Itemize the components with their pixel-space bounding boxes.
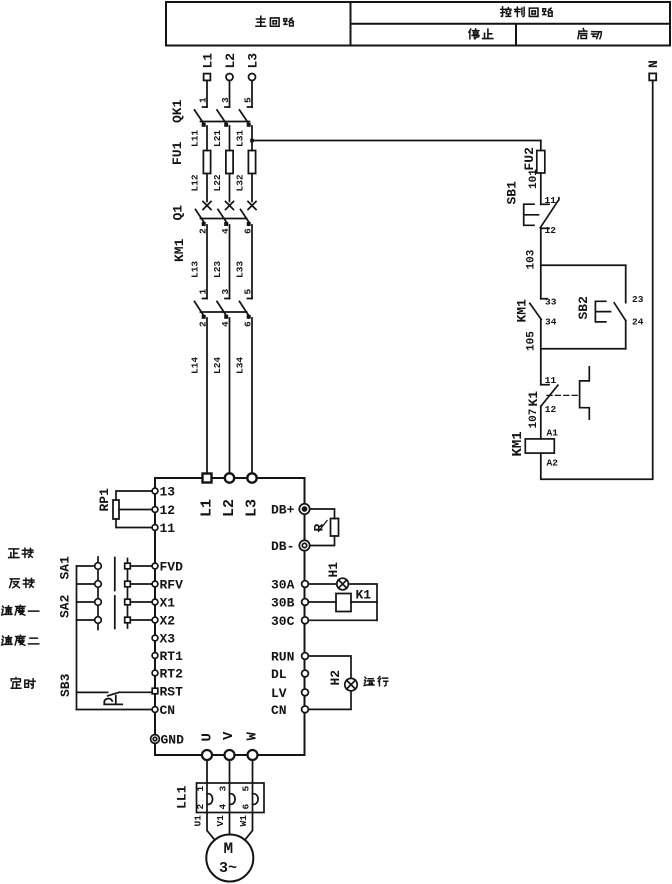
svg-text:FU1: FU1 — [170, 141, 185, 165]
svg-text:L2: L2 — [221, 499, 238, 517]
node L1 supply terminal — [204, 74, 211, 81]
svg-text:FVD: FVD — [160, 560, 184, 575]
svg-text:W1: W1 — [238, 815, 249, 827]
VFD inverter box U1 — [155, 478, 305, 755]
svg-text:SA2: SA2 — [58, 594, 73, 618]
svg-text:SA1: SA1 — [58, 556, 73, 580]
wire L31 — [251, 126, 253, 151]
svg-text:23: 23 — [632, 294, 644, 305]
KM1 aux blade — [530, 303, 542, 319]
svg-text:CN: CN — [271, 703, 287, 718]
node N terminal — [649, 73, 656, 80]
svg-text:11: 11 — [160, 521, 176, 536]
svg-text:RP1: RP1 — [97, 488, 112, 512]
K1 link to delay element — [547, 394, 579, 396]
svg-text:L31: L31 — [235, 130, 246, 147]
VFD terminal L3 — [247, 473, 256, 482]
svg-text:105: 105 — [526, 331, 538, 351]
svg-text:13: 13 — [160, 485, 176, 500]
wire 30B to K1 coil — [308, 601, 336, 603]
K1 delayed blade — [541, 385, 558, 406]
svg-text:3: 3 — [218, 786, 229, 792]
header label 启动 — [578, 29, 601, 39]
svg-text:L32: L32 — [235, 174, 246, 191]
svg-text:24: 24 — [632, 317, 644, 328]
VFD terminal GND — [151, 735, 160, 744]
KM1 pole 2 blade — [217, 302, 227, 317]
contact SA2 X2 — [95, 617, 102, 624]
svg-text:KM1: KM1 — [510, 431, 526, 456]
VFD terminal RT2 — [152, 670, 158, 676]
wire U to reactor — [206, 760, 208, 783]
QK1 pole 1 contact dot — [202, 123, 206, 127]
svg-text:1: 1 — [195, 786, 206, 792]
KM1 pole 3 terminal 6 — [247, 315, 251, 319]
QK1 pole 2 blade — [217, 110, 227, 124]
svg-text:GND: GND — [161, 733, 185, 748]
fuse FU2 — [537, 151, 545, 174]
QK1 pole 3 blade — [240, 110, 250, 124]
svg-text:U1: U1 — [193, 815, 204, 827]
motor M 3~ — [206, 835, 253, 882]
wire control feed from L3 to FU2 — [252, 140, 541, 142]
relay K1 coil — [336, 594, 351, 612]
VFD terminal X3 — [152, 635, 158, 641]
fixed contact at 620 — [125, 617, 131, 623]
svg-text:L11: L11 — [190, 130, 201, 147]
Q1 pole 3 blade — [241, 210, 250, 224]
svg-text:33: 33 — [545, 297, 557, 308]
fixed contact at 566 — [125, 563, 131, 569]
svg-text:K1: K1 — [356, 588, 372, 603]
wire bus to CN — [77, 709, 153, 711]
KM1 pole 2 terminal 4 — [224, 315, 228, 319]
VFD terminal L2 — [225, 473, 234, 482]
Q1 pole 2 terminal 4 — [224, 222, 228, 226]
svg-text:RT1: RT1 — [160, 649, 184, 664]
wire SB3 to RST — [119, 691, 152, 693]
header label 控制回路 — [501, 7, 553, 17]
fuse FU1 pole 3 — [248, 151, 255, 174]
KM1 pole 2 fixed contact — [225, 298, 230, 300]
svg-text:12: 12 — [160, 503, 176, 518]
selector moving contact column — [97, 557, 99, 630]
wire reactor U1 to motor — [207, 813, 215, 841]
fuse FU1 pole 1 — [203, 151, 210, 174]
VFD terminal RT1 — [152, 653, 158, 659]
QK1 pole 1 terminal 1 — [203, 106, 208, 108]
svg-text:L14: L14 — [190, 357, 201, 374]
svg-text:QK1: QK1 — [170, 99, 185, 123]
contact SA2 X1 — [95, 599, 102, 606]
svg-text:X3: X3 — [160, 632, 176, 647]
KM1 aux contact 33 — [541, 298, 547, 300]
svg-text:V1: V1 — [215, 815, 226, 827]
svg-text:3: 3 — [220, 289, 231, 295]
wire L23 — [229, 225, 231, 299]
VFD terminal X2 — [152, 617, 158, 623]
wire L34 — [251, 318, 253, 474]
junction on L3 — [250, 139, 254, 143]
svg-text:12: 12 — [545, 225, 557, 236]
svg-text:SB2: SB2 — [576, 296, 591, 320]
label 运行 — [364, 676, 388, 685]
VFD terminal CN — [152, 707, 158, 713]
KM1 pole 1 blade — [195, 302, 205, 317]
QK1 pole 2 contact dot — [224, 123, 228, 127]
wire DB+ to braking resistor — [310, 509, 335, 519]
K1 contact 11 — [541, 384, 549, 386]
SB2 branch wire down — [625, 265, 627, 302]
VFD terminal RST — [152, 688, 158, 694]
wire 103 branch to SB2 — [541, 264, 626, 266]
wire L11 — [206, 126, 208, 151]
svg-text:LL1: LL1 — [175, 785, 190, 809]
svg-text:6: 6 — [241, 804, 252, 810]
svg-text:L24: L24 — [212, 357, 223, 374]
svg-text:N: N — [646, 60, 661, 68]
wire RP1 wiper to 12 — [119, 509, 152, 511]
wire contact to VFD at 566 — [131, 565, 153, 567]
svg-text:RT2: RT2 — [160, 667, 184, 682]
node L2 supply terminal — [226, 74, 233, 81]
label 速度二 — [2, 635, 39, 645]
SB2 operator — [595, 301, 610, 322]
svg-text:CN: CN — [160, 703, 176, 718]
svg-text:L23: L23 — [212, 261, 223, 278]
wire L13 — [206, 225, 208, 299]
svg-text:3~: 3~ — [219, 860, 237, 877]
svg-text:SB1: SB1 — [505, 181, 520, 205]
SB1 fixed contact 12 — [541, 227, 549, 229]
wire bus to SB3 — [77, 691, 108, 693]
svg-text:2: 2 — [195, 804, 206, 810]
SB2 wire to 105 — [625, 321, 627, 349]
wire 30A to H1 — [308, 583, 336, 585]
wire K1 coil to right bus — [351, 601, 377, 603]
svg-text:H2: H2 — [328, 670, 343, 686]
svg-text:DB+: DB+ — [271, 503, 295, 518]
lamp H2 — [345, 678, 357, 690]
wire contact to VFD at 620 — [131, 619, 153, 621]
potentiometer RP1 body — [113, 500, 119, 519]
svg-text:34: 34 — [545, 317, 557, 328]
contact SA1 RFV — [95, 581, 102, 588]
fuse FU1 pole 2 — [226, 151, 233, 174]
wire H2 to CN — [308, 691, 351, 710]
svg-text:L1: L1 — [201, 53, 216, 69]
svg-text:3: 3 — [220, 97, 231, 103]
svg-text:DB-: DB- — [271, 539, 294, 554]
svg-text:A1: A1 — [547, 428, 559, 439]
svg-text:RFV: RFV — [160, 578, 184, 593]
QK1 linkage bar — [201, 121, 250, 123]
svg-text:RST: RST — [160, 685, 184, 700]
braking resistor R — [331, 519, 339, 537]
svg-text:11: 11 — [545, 195, 557, 206]
KM1 pole 1 terminal 2 — [202, 315, 206, 319]
wire V to reactor — [229, 760, 231, 783]
K1 delay element — [580, 367, 590, 419]
Q1 pole 1 terminal 2 — [202, 222, 206, 226]
fixed contact at 602 — [125, 599, 131, 605]
wire contact to VFD at 584 — [131, 583, 153, 585]
wire RP1 top to 13 — [116, 491, 152, 500]
svg-text:1: 1 — [198, 289, 209, 295]
wire 30C to right bus — [308, 619, 377, 621]
VFD terminal 11 — [152, 525, 158, 531]
contact SA1 FVD — [95, 563, 102, 570]
svg-text:Q1: Q1 — [171, 205, 186, 221]
wire L14 — [206, 318, 208, 474]
VFD terminal FVD — [152, 563, 158, 569]
wire 105 branch from SB2 — [541, 348, 626, 350]
wire reactor W1 to motor — [245, 813, 253, 841]
svg-text:RUN: RUN — [271, 650, 294, 665]
wire node 105 — [540, 320, 542, 385]
svg-text:103: 103 — [526, 249, 538, 269]
wire contact to VFD at 602 — [131, 601, 153, 603]
wire L22 — [229, 174, 231, 202]
svg-text:1: 1 — [198, 97, 209, 103]
label 速度一 — [2, 605, 39, 615]
svg-text:L34: L34 — [235, 357, 246, 374]
wire node 103 — [540, 228, 542, 298]
pushbutton SB3 operator — [104, 696, 122, 705]
wire RUN to H2 — [308, 656, 351, 678]
Q1 pole 1 cross contact — [203, 202, 211, 210]
wire coil to neutral run — [541, 81, 653, 480]
svg-text:30C: 30C — [271, 614, 295, 629]
wire RP1 bottom to 11 — [116, 519, 152, 528]
svg-text:M: M — [224, 840, 234, 858]
svg-text:L21: L21 — [212, 130, 223, 147]
label 正转 — [9, 548, 33, 557]
VFD terminal RFV — [152, 581, 158, 587]
SB1 operator — [524, 204, 539, 225]
pushbutton SB3 blade — [108, 692, 119, 696]
selector fixed contact column — [127, 559, 129, 629]
KM1 pole 3 blade — [240, 302, 250, 317]
SA1 blade bar — [114, 558, 116, 591]
svg-text:L12: L12 — [190, 174, 201, 191]
svg-text:L3: L3 — [244, 499, 261, 517]
QK1 pole 1 blade — [195, 110, 205, 124]
svg-text:K1: K1 — [526, 391, 541, 407]
header label 停止 — [469, 29, 493, 39]
svg-text:X1: X1 — [160, 596, 176, 611]
header table frame — [166, 2, 670, 46]
wire bus to RFV contact — [77, 583, 95, 585]
wire node 107 — [540, 406, 542, 439]
svg-text:H1: H1 — [326, 562, 341, 578]
KM1 pole 1 fixed contact — [203, 298, 208, 300]
label 反转 — [10, 578, 34, 588]
contactor KM1 coil — [525, 439, 554, 453]
svg-text:U: U — [200, 733, 216, 741]
VFD terminal 13 — [152, 488, 158, 494]
wire L1 to QK1 — [206, 81, 208, 108]
common bus wire left — [76, 566, 78, 710]
wire L3 to QK1 — [251, 81, 253, 108]
svg-text:SB3: SB3 — [58, 673, 73, 697]
svg-text:A2: A2 — [547, 458, 559, 469]
svg-text:L1: L1 — [199, 499, 216, 517]
VFD terminal X1 — [152, 599, 158, 605]
svg-text:30B: 30B — [271, 596, 295, 611]
svg-text:L13: L13 — [190, 261, 201, 278]
svg-text:11: 11 — [545, 375, 557, 386]
wire feed corner to FU2 — [540, 141, 542, 151]
wire reactor V1 to motor — [229, 813, 231, 835]
wire L2 to QK1 — [229, 81, 231, 108]
wire bus to X2 contact — [77, 619, 95, 621]
wire W to reactor — [252, 760, 254, 783]
svg-text:KM1: KM1 — [172, 238, 187, 262]
reactor LL1 box — [197, 783, 265, 813]
wire braking resistor to DB- — [310, 536, 335, 546]
wire L24 — [229, 318, 231, 474]
svg-text:5: 5 — [241, 786, 252, 792]
node L3 supply terminal — [249, 74, 256, 81]
fixed contact at 584 — [125, 581, 131, 587]
Q1 pole 3 terminal 6 — [247, 222, 251, 226]
Q1 linkage bar — [201, 218, 247, 220]
wire bus to FVD contact — [77, 565, 95, 567]
svg-text:L3: L3 — [246, 53, 261, 69]
svg-text:W: W — [245, 732, 261, 741]
wire H1 to right bus — [348, 584, 377, 620]
KM1 linkage bar — [201, 311, 247, 313]
label 定时 — [11, 678, 35, 689]
Q1 pole 2 blade — [218, 210, 227, 224]
lamp H1 — [337, 578, 349, 590]
QK1 pole 3 terminal 5 — [248, 106, 253, 108]
wire L32 — [251, 174, 253, 202]
svg-text:V: V — [221, 731, 237, 740]
svg-text:5: 5 — [243, 289, 254, 295]
VFD terminal 12 — [152, 507, 158, 513]
wire L21 — [229, 126, 231, 151]
Q1 pole 3 cross contact — [248, 202, 256, 210]
svg-text:L33: L33 — [235, 261, 246, 278]
wire L33 — [251, 225, 253, 299]
svg-text:4: 4 — [218, 804, 229, 810]
svg-text:12: 12 — [545, 404, 557, 415]
Q1 pole 1 blade — [196, 210, 205, 224]
SB1 fixed contact 11 — [541, 203, 549, 205]
wire L12 — [206, 174, 208, 202]
svg-text:101: 101 — [528, 169, 540, 189]
svg-text:L2: L2 — [223, 53, 238, 69]
svg-text:L22: L22 — [212, 174, 223, 191]
VFD terminal U — [202, 750, 212, 760]
header label 主回路 — [256, 16, 293, 26]
QK1 pole 3 contact dot — [247, 123, 251, 127]
SB2 blade — [614, 303, 626, 321]
svg-text:KM1: KM1 — [515, 299, 530, 323]
VFD terminal V — [225, 750, 235, 760]
wire bus to X1 contact — [77, 601, 95, 603]
SA2 blade bar — [114, 596, 116, 629]
VFD terminal W — [248, 750, 258, 760]
svg-text:LV: LV — [271, 686, 287, 701]
svg-text:DL: DL — [271, 667, 287, 682]
svg-text:X2: X2 — [160, 614, 176, 629]
svg-text:107: 107 — [528, 409, 540, 429]
QK1 pole 2 terminal 3 — [225, 106, 230, 108]
VFD terminal L1 — [203, 474, 212, 483]
svg-text:5: 5 — [243, 97, 254, 103]
KM1 pole 3 fixed contact — [248, 298, 253, 300]
Q1 pole 2 cross contact — [226, 202, 234, 210]
svg-text:FU2: FU2 — [522, 147, 537, 171]
svg-text:30A: 30A — [271, 578, 295, 593]
SB1 blade — [540, 198, 559, 228]
wire node 101 — [540, 173, 542, 204]
